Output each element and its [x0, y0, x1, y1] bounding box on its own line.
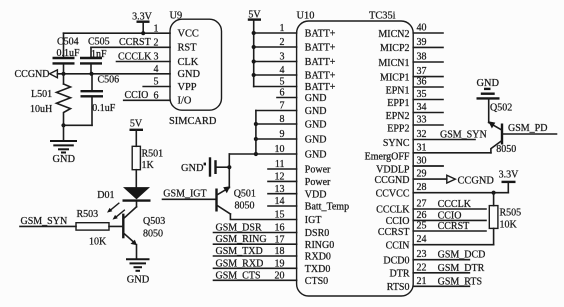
svg-text:DCD0: DCD0: [383, 256, 409, 267]
wire CCRST pin25: [413, 230, 486, 232]
svg-text:VDDLP: VDDLP: [376, 165, 410, 176]
wire CCIO pin26: [413, 219, 486, 221]
wire GSM_CTS to pin20: [214, 279, 297, 281]
svg-text:EPP2: EPP2: [387, 124, 409, 135]
wire VDDLP pin30 stub: [413, 165, 443, 167]
svg-text:IGT: IGT: [305, 215, 322, 226]
wire pin33 stub: [413, 124, 443, 126]
inductor L501: [30, 74, 71, 126]
wire GND bus pins 7-10: [255, 111, 257, 155]
wire pin30 stub: [413, 165, 443, 167]
svg-text:CCGND: CCGND: [15, 69, 50, 80]
svg-text:21: 21: [417, 276, 427, 287]
power 3.3V: [132, 12, 153, 34]
svg-text:10K: 10K: [500, 220, 518, 231]
svg-text:17: 17: [275, 234, 285, 245]
svg-text:22: 22: [417, 262, 427, 273]
wire pin4 BATT+: [254, 74, 297, 76]
svg-text:2: 2: [280, 37, 285, 48]
wire GSM_TXD to pin18: [214, 255, 297, 257]
svg-text:GND: GND: [181, 163, 204, 174]
wire GSM_RTS pin21: [413, 285, 469, 287]
svg-text:3.3V: 3.3V: [499, 170, 520, 181]
wire pin8 stub: [256, 123, 297, 125]
svg-text:9: 9: [280, 129, 285, 140]
svg-text:14: 14: [275, 196, 285, 207]
wire R503 to Q503 base: [109, 225, 123, 227]
svg-text:6: 6: [280, 88, 285, 99]
svg-text:CCIN: CCIN: [386, 241, 410, 252]
svg-text:RING0: RING0: [305, 240, 334, 251]
svg-text:GSM_IGT: GSM_IGT: [163, 189, 206, 200]
wire SYNC pin32: [413, 139, 475, 141]
wire pin36 stub: [413, 86, 443, 88]
svg-text:4: 4: [154, 64, 159, 75]
svg-text:BATT+: BATT+: [305, 82, 336, 93]
wire pin5 BATT+: [254, 86, 297, 88]
svg-text:0.1uF: 0.1uF: [57, 48, 81, 59]
resistor R503 10K: [76, 209, 109, 248]
svg-text:GND: GND: [53, 154, 76, 165]
node CCGND port arrow: [15, 69, 58, 80]
svg-text:GND: GND: [305, 106, 327, 117]
svg-text:GND: GND: [305, 93, 327, 104]
wire pin6 stub: [277, 97, 297, 99]
wire pin7 stub: [256, 110, 297, 112]
U10 left pin names: [305, 29, 349, 287]
wire CCIO pin6 U9: [124, 99, 170, 101]
svg-text:MICN2: MICN2: [378, 29, 409, 40]
wire CCIN pin24 to R505: [413, 244, 493, 246]
svg-text:R503: R503: [77, 209, 99, 220]
wire CCCLK pin3 U9: [117, 61, 171, 63]
svg-text:10uH: 10uH: [30, 104, 52, 115]
wire GSM_RXD to pin19: [214, 267, 297, 269]
wire to ground: [63, 125, 65, 139]
svg-text:13: 13: [275, 184, 285, 195]
wire pin9 stub: [256, 138, 297, 140]
svg-text:24: 24: [417, 234, 427, 245]
svg-text:28: 28: [417, 182, 427, 193]
svg-text:38: 38: [417, 52, 427, 63]
wire pin13 stub: [268, 193, 297, 195]
svg-text:26: 26: [417, 210, 427, 221]
svg-text:12: 12: [275, 172, 285, 183]
wire VCC net pin1 U9: [64, 32, 171, 34]
svg-text:CLK: CLK: [178, 57, 199, 68]
svg-text:U10: U10: [297, 10, 315, 21]
svg-text:MICP2: MICP2: [380, 43, 409, 54]
wire pin11 stub: [268, 168, 297, 170]
wire pin14 stub: [268, 205, 297, 207]
capacitor C504: [53, 33, 81, 74]
svg-text:40: 40: [417, 23, 427, 34]
wire CCGND pin29: [413, 178, 447, 180]
transistor Q502 8050: [488, 102, 516, 155]
junction bottom node: [61, 123, 65, 127]
svg-text:VCC: VCC: [178, 29, 199, 40]
wire CCRST pin2 U9: [91, 46, 170, 48]
svg-text:BATT+: BATT+: [305, 57, 336, 68]
svg-text:36: 36: [417, 77, 427, 88]
svg-text:GND: GND: [178, 69, 201, 80]
svg-text:5: 5: [280, 77, 285, 88]
svg-text:GND: GND: [305, 150, 327, 161]
svg-text:1K: 1K: [142, 160, 155, 171]
wire CCCLK pin27: [413, 208, 486, 210]
svg-text:33: 33: [417, 115, 427, 126]
junction C505/C506/CCGND: [89, 72, 93, 76]
svg-text:RTS0: RTS0: [387, 282, 410, 293]
transistor Q503 8050: [123, 207, 165, 259]
LED light arrows: [107, 203, 124, 219]
svg-text:4: 4: [280, 65, 285, 76]
svg-text:16: 16: [275, 223, 285, 234]
junction 5V pin4: [252, 73, 256, 77]
U10 left pin numbers: [275, 23, 285, 281]
capacitor C506: [81, 74, 120, 126]
svg-text:31: 31: [417, 142, 427, 153]
svg-text:CCIO: CCIO: [125, 90, 149, 101]
svg-text:TXD0: TXD0: [305, 264, 331, 275]
wire R501 to D01: [135, 170, 137, 187]
wire pin12 stub: [268, 180, 297, 182]
svg-text:GSM_PD: GSM_PD: [508, 123, 547, 134]
svg-text:C505: C505: [88, 37, 110, 48]
svg-text:8050: 8050: [143, 229, 163, 240]
junction 5V pin1: [252, 31, 256, 35]
svg-text:GND: GND: [305, 135, 327, 146]
svg-text:RST: RST: [178, 43, 198, 54]
wire GSM_DSR to pin16: [214, 232, 297, 234]
svg-text:1nF: 1nF: [91, 49, 107, 60]
svg-text:CTS0: CTS0: [305, 276, 328, 287]
svg-text:7: 7: [280, 101, 285, 112]
junction GND bus pin10: [254, 152, 258, 156]
wire pin2 BATT+: [254, 46, 297, 48]
wire pin38 stub: [413, 61, 443, 63]
svg-text:CCRST: CCRST: [119, 37, 151, 48]
svg-text:TC35i: TC35i: [369, 10, 396, 21]
svg-text:DSR0: DSR0: [305, 228, 329, 239]
svg-text:Q501: Q501: [234, 188, 256, 199]
junction 3.3V/VCC: [141, 31, 145, 35]
svg-text:23: 23: [417, 249, 427, 260]
svg-text:27: 27: [417, 198, 427, 209]
svg-text:D01: D01: [97, 190, 114, 201]
resistor R501 1K: [132, 146, 163, 171]
svg-text:2: 2: [154, 38, 159, 49]
rotated ground at Q501: [181, 157, 229, 176]
wire GND net pin10 to Q501: [229, 153, 296, 155]
ground above Q502: [477, 78, 500, 99]
wire pin1 BATT+: [254, 32, 297, 34]
IC U9 SIMCARD: [169, 10, 222, 127]
svg-text:25: 25: [417, 221, 427, 232]
svg-text:1: 1: [154, 23, 159, 34]
wire pin40 stub: [413, 32, 443, 34]
svg-text:DTR: DTR: [390, 269, 410, 280]
svg-text:37: 37: [417, 66, 427, 77]
junction GND bus pin8: [254, 122, 258, 126]
svg-text:I/O: I/O: [178, 96, 192, 107]
svg-text:CCCLK: CCCLK: [376, 205, 410, 216]
svg-text:CCGND: CCGND: [458, 175, 495, 186]
power 3.3V right: [499, 170, 520, 193]
svg-text:Q502: Q502: [490, 102, 512, 113]
svg-text:SYNC: SYNC: [383, 138, 410, 149]
svg-text:30: 30: [417, 156, 427, 167]
svg-text:32: 32: [417, 129, 427, 140]
svg-text:L501: L501: [31, 89, 52, 100]
wire L501/C506 bottom node: [64, 124, 93, 126]
svg-text:CCVCC: CCVCC: [376, 189, 410, 200]
svg-text:CCIO: CCIO: [386, 216, 410, 227]
wire VPP pin5 stub: [143, 86, 170, 88]
svg-text:R505: R505: [500, 208, 522, 219]
junction GND bus pin9: [254, 137, 258, 141]
wire CCVCC pin28 to 3.3V: [413, 192, 508, 194]
svg-text:3: 3: [280, 52, 285, 63]
svg-text:EPN1: EPN1: [386, 86, 410, 97]
wire pin3 BATT+: [254, 61, 297, 63]
svg-text:EmergOFF: EmergOFF: [365, 151, 410, 162]
ground below Q503: [126, 259, 150, 285]
svg-text:EPN2: EPN2: [386, 111, 410, 122]
svg-text:GND: GND: [127, 274, 150, 285]
svg-text:CCRST: CCRST: [378, 227, 410, 238]
ground below L501: [50, 141, 77, 165]
svg-text:10K: 10K: [89, 236, 107, 247]
wire GSM_SYN to R503: [20, 225, 76, 227]
wire Q501 collector to pin15 IGT: [230, 214, 296, 220]
svg-text:RXD0: RXD0: [305, 252, 331, 263]
svg-text:8050: 8050: [496, 144, 516, 155]
svg-text:CCCLK: CCCLK: [118, 51, 152, 62]
svg-text:R501: R501: [142, 149, 164, 160]
svg-text:VPP: VPP: [178, 82, 197, 93]
IC U10 TC35i: [297, 10, 414, 296]
wire GSM_DTR pin22: [413, 272, 469, 274]
svg-text:MICP1: MICP1: [380, 72, 409, 83]
U10 right pin names: [365, 29, 411, 293]
wire pin37 stub: [413, 76, 443, 78]
svg-text:GND: GND: [477, 78, 500, 89]
wire EmergOFF pin31 to Q502: [413, 152, 491, 154]
svg-text:18: 18: [275, 246, 285, 257]
power 5V for R501: [130, 118, 144, 146]
svg-text:20: 20: [275, 271, 285, 282]
svg-text:MICN1: MICN1: [378, 58, 409, 69]
svg-text:3: 3: [154, 52, 159, 63]
junction 5V pin2: [252, 45, 256, 49]
svg-text:EPP1: EPP1: [387, 98, 409, 109]
svg-text:0.1uF: 0.1uF: [92, 103, 116, 114]
svg-text:VDD: VDD: [305, 189, 327, 200]
wire pin39 stub: [413, 46, 443, 48]
wire pin34 stub: [413, 112, 443, 114]
svg-text:CCGND: CCGND: [374, 175, 409, 186]
wire GSM_IGT to Q501 base: [163, 198, 217, 200]
junction C504/CCGND: [61, 72, 65, 76]
svg-text:Power: Power: [305, 177, 331, 188]
junction R505 top: [492, 191, 496, 195]
resistor R505 10K: [489, 193, 521, 245]
LED D01: [97, 187, 150, 207]
svg-text:Power: Power: [305, 165, 331, 176]
svg-text:BATT+: BATT+: [305, 29, 336, 40]
wire GSM_PD to Q502 base: [503, 133, 557, 135]
transistor Q501 8050: [217, 186, 256, 214]
node CCGND port arrow right: [447, 175, 495, 186]
svg-text:8050: 8050: [235, 200, 255, 211]
svg-text:19: 19: [275, 259, 285, 270]
capacitor C505: [80, 37, 110, 74]
svg-text:8: 8: [280, 114, 285, 125]
svg-text:34: 34: [417, 102, 427, 113]
svg-text:15: 15: [275, 210, 285, 221]
wire pin35 stub: [413, 99, 443, 101]
wire GSM_DCD pin23: [413, 259, 469, 261]
svg-text:5V: 5V: [130, 118, 143, 129]
junction rotated-ground on emitter wire: [227, 165, 231, 169]
wire Q501 emitter up to GND net: [228, 154, 230, 188]
svg-text:C506: C506: [98, 74, 120, 85]
wire GSM_RING to pin17: [214, 243, 297, 245]
svg-text:Batt_Temp: Batt_Temp: [305, 202, 349, 213]
svg-text:6: 6: [154, 91, 159, 102]
svg-text:SIMCARD: SIMCARD: [169, 116, 217, 127]
svg-text:29: 29: [417, 169, 427, 180]
U10 right pin numbers: [417, 23, 427, 287]
U9 pin numbers 1-6: [154, 23, 159, 101]
junction 5V pin3: [252, 59, 256, 63]
svg-text:10: 10: [275, 144, 285, 155]
wire CCGND pin4 U9: [57, 73, 170, 75]
svg-text:Q503: Q503: [143, 216, 165, 227]
svg-text:5: 5: [154, 77, 159, 88]
svg-text:GND: GND: [305, 120, 327, 131]
svg-text:BATT+: BATT+: [305, 43, 336, 54]
svg-text:GSM_SYN: GSM_SYN: [21, 216, 68, 227]
svg-text:1: 1: [280, 23, 285, 34]
svg-text:35: 35: [417, 89, 427, 100]
wire ground to Q502 emitter: [488, 98, 490, 122]
svg-text:U9: U9: [170, 10, 183, 21]
svg-text:C504: C504: [57, 37, 79, 48]
power 5V bus U10: [248, 9, 262, 86]
svg-text:BATT+: BATT+: [305, 71, 336, 82]
svg-text:11: 11: [275, 159, 285, 170]
svg-text:39: 39: [417, 37, 427, 48]
